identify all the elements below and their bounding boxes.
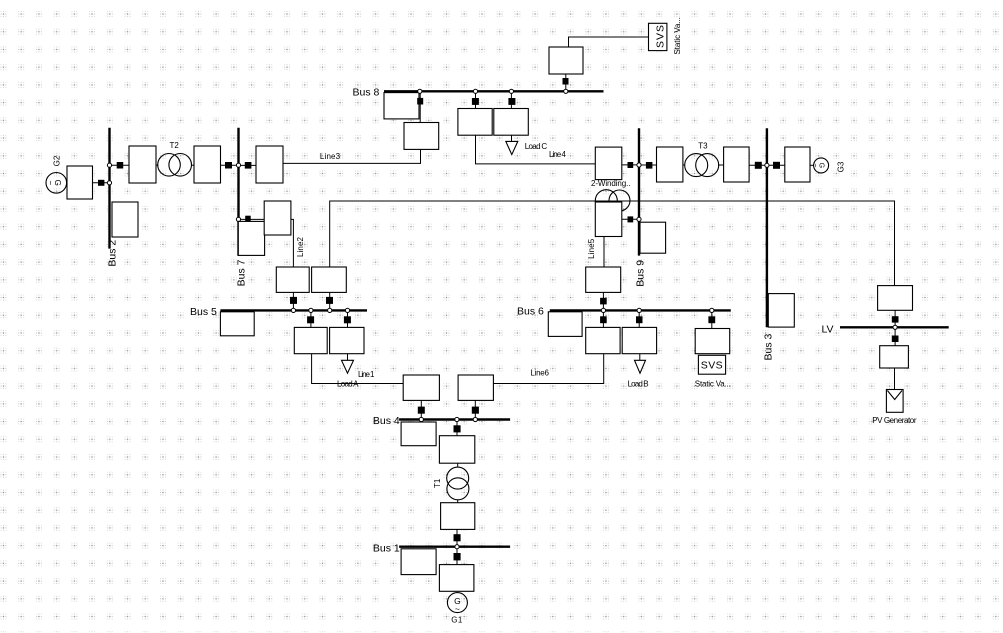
- junction square Bus6-Line6: [600, 316, 607, 323]
- result box Bus 3: [768, 294, 794, 328]
- load Load B triangle: [635, 360, 646, 373]
- wire PV cubicle to PV generator: [894, 368, 896, 390]
- svg-text:LV: LV: [822, 323, 834, 335]
- wire G3 stub: [810, 164, 814, 166]
- wire Bus5 stub LoadA cubicle: [347, 310, 349, 327]
- svg-text:Static Va...: Static Va...: [695, 379, 731, 388]
- SVS static var system 2 box: [698, 355, 725, 374]
- load Load A triangle: [342, 360, 354, 373]
- svg-text:Line 4: Line 4: [549, 150, 567, 159]
- junction square LVupper: [892, 316, 899, 322]
- junction square Bus6-LoadB: [636, 316, 643, 323]
- wire T1 bottom stub: [457, 500, 459, 503]
- node LV: [893, 325, 897, 329]
- wire Bus6 stub Line5: [602, 292, 604, 310]
- bus Bus 5: [220, 309, 367, 311]
- cubicle box SVS at Bus 8: [549, 47, 583, 74]
- wire long line Bus5 area to LV area: [330, 201, 895, 286]
- svg-text:~: ~: [46, 180, 55, 185]
- wire Bus 7 to Line2 cubicle: [239, 218, 265, 220]
- junction square LVlower: [892, 336, 899, 343]
- node Bus6 SVS: [710, 308, 714, 312]
- wire Load A stub: [347, 354, 349, 361]
- node Bus4 Line6: [473, 417, 477, 421]
- wire Line6: [493, 354, 604, 384]
- cubicle box Line6 at Bus4: [458, 375, 493, 400]
- generator G3: [811, 158, 829, 173]
- wire Bus5 stub Line2: [292, 292, 294, 310]
- cubicle box G1: [439, 565, 474, 592]
- cubicle box 2W lower: [595, 202, 622, 237]
- junction square T1-Bus1: [454, 534, 461, 541]
- node Bus1: [455, 545, 459, 549]
- wire T2 left stub: [156, 164, 159, 166]
- cubicle box LoadC at Bus8: [494, 109, 529, 136]
- svg-text:T2: T2: [170, 141, 180, 150]
- node Bus4 T1: [455, 417, 459, 421]
- cubicle box G2: [67, 166, 93, 199]
- node Bus3: [765, 163, 769, 167]
- wire LV upper cubicle to LV bus: [894, 310, 896, 327]
- wire Load B stub: [639, 354, 641, 361]
- wire Bus6 stub LoadB cubicle: [638, 310, 640, 327]
- junction square Bus7-Line3: [245, 162, 252, 169]
- wire T2 cubicle to Bus 7: [220, 164, 239, 166]
- junction square Line2-Bus5: [290, 297, 297, 304]
- bus Bus 6: [550, 309, 731, 311]
- junction square longline-Bus5: [326, 297, 333, 304]
- node Bus5 Line1: [309, 308, 313, 312]
- bus Bus 7: [237, 128, 239, 256]
- svg-text:T3: T3: [698, 142, 708, 151]
- junction square Bus9-T3: [646, 162, 653, 169]
- node Bus6 LoadB: [637, 308, 641, 312]
- junction square Line5-Bus6: [600, 298, 607, 305]
- node Bus7 at Line2 feeder: [236, 217, 240, 221]
- svg-text:Bus 2: Bus 2: [106, 240, 118, 267]
- node Bus8 at SVS: [564, 89, 568, 93]
- svg-text:Line3: Line3: [320, 152, 341, 161]
- wire G2 to Bus 2: [92, 182, 110, 184]
- result box Bus 6: [548, 312, 582, 337]
- cubicle box T2 right: [194, 146, 221, 183]
- cubicle box Line1 at Bus4: [403, 375, 439, 400]
- svg-text:~: ~: [811, 163, 818, 167]
- wire LV bus to PV cubicle: [894, 327, 896, 346]
- junction square T3-Bus3: [755, 162, 762, 169]
- cubicle box LoadB at Bus6: [622, 327, 656, 353]
- generator G2: [46, 173, 67, 194]
- svg-text:SVS: SVS: [655, 25, 667, 48]
- wire Bus 7 to Line3 cubicle: [239, 164, 257, 166]
- cubicle box T1 upper: [439, 436, 474, 464]
- junction square 2Wlower-Bus9: [628, 216, 634, 222]
- wire SVS feeder to Bus 8: [569, 37, 649, 47]
- junction square Bus3-G3: [773, 162, 780, 169]
- svg-text:Line 1: Line 1: [358, 370, 375, 379]
- svg-text:Bus 8: Bus 8: [353, 86, 380, 98]
- cubicle box T2 left: [129, 146, 156, 183]
- bus Bus 2: [108, 128, 110, 249]
- cubicle box longline at Bus5: [312, 267, 347, 292]
- node Bus2 at T2 feeder: [107, 163, 111, 167]
- cubicle box SVS at Bus6: [695, 329, 730, 354]
- wire Line6 cubicle to Bus 4: [474, 400, 476, 419]
- result box Bus 7: [238, 221, 264, 255]
- wire T3 right stub: [718, 164, 723, 166]
- svg-text:Bus 3: Bus 3: [763, 333, 775, 360]
- node Bus9 lower: [637, 217, 641, 221]
- wire Bus8 stub Load C cubicle: [475, 91, 477, 109]
- node Bus5 Line2: [291, 308, 295, 312]
- svg-text:PV Generator: PV Generator: [872, 416, 917, 425]
- wire Bus 9 to T3 cubicle: [639, 164, 657, 166]
- node Bus7 at T2 feeder: [236, 163, 240, 167]
- cubicle box T1 lower: [441, 503, 475, 530]
- junction square Bus6-SVS: [708, 316, 715, 323]
- junction square G2-Bus2: [98, 180, 104, 186]
- cubicle box Line1 at Bus5: [294, 327, 327, 353]
- cubicle box Line6 at Bus6: [586, 327, 620, 353]
- transformer T3: [685, 154, 719, 177]
- transformer 2-Winding: [595, 190, 630, 212]
- cubicle box G3: [785, 147, 810, 182]
- cubicle box PV: [880, 346, 909, 368]
- cubicle box LV upper: [878, 286, 913, 311]
- svg-text:Static Va...: Static Va...: [673, 17, 682, 55]
- cubicle box T3 left: [657, 147, 683, 182]
- result box Bus 9: [640, 222, 666, 253]
- wire Bus6 stub SVS cubicle: [711, 310, 713, 328]
- junction square Bus5-LoadA: [344, 316, 351, 323]
- svg-text:G1: G1: [451, 616, 463, 625]
- generator G1: [447, 593, 467, 614]
- svg-text:Bus 1: Bus 1: [373, 543, 400, 555]
- result box Bus 1: [401, 549, 436, 575]
- bus Bus 3: [766, 128, 768, 327]
- wire Load C stub: [511, 135, 513, 141]
- cubicle box Line3 at Bus8: [404, 123, 439, 150]
- junction square Bus8-Line4: [472, 98, 479, 105]
- wire Line2: [291, 219, 294, 267]
- wire Bus 2 to T2 cubicle: [110, 164, 130, 166]
- junction square Bus8 box1: [417, 98, 423, 105]
- svg-text:Bus 7: Bus 7: [235, 259, 247, 286]
- node Bus5 LoadA: [345, 308, 349, 312]
- wire Line1: [312, 354, 403, 384]
- node Bus4 Line1: [419, 417, 423, 421]
- cubicle box T3 right: [724, 147, 750, 182]
- junction square SVS-Bus8: [563, 78, 569, 85]
- wire T1 top stub: [457, 463, 459, 467]
- svg-text:SVS: SVS: [701, 360, 723, 372]
- bus Bus 8: [384, 90, 604, 92]
- bus LV: [840, 326, 949, 328]
- wire Line3: [283, 149, 421, 163]
- result box Bus 2: [112, 202, 138, 237]
- svg-text:Load C: Load C: [525, 142, 548, 151]
- wire Bus5 stub long line: [329, 292, 331, 310]
- junction square Bus8-LoadC: [508, 98, 515, 105]
- cubicle box Line2 at Bus5: [276, 267, 309, 292]
- node Bus2 at G2 feeder: [107, 181, 111, 185]
- svg-text:2-Winding..: 2-Winding..: [591, 179, 631, 188]
- cubicle box LoadA at Bus5: [330, 327, 364, 353]
- junction square 2Wupper-Bus9: [628, 162, 634, 168]
- svg-text:Load A: Load A: [337, 380, 359, 389]
- wire Bus 1 to G1 cubicle: [456, 547, 458, 565]
- svg-text:Line6: Line6: [530, 369, 549, 378]
- svg-text:T1: T1: [433, 478, 442, 488]
- cubicle box Line4 at Bus8: [458, 109, 492, 136]
- svg-text:~: ~: [455, 604, 460, 614]
- junction square Bus4-T1: [454, 425, 461, 432]
- svg-text:Bus 4: Bus 4: [373, 415, 400, 427]
- transformer T2: [158, 154, 192, 177]
- svg-text:Load B: Load B: [628, 380, 649, 389]
- svg-text:Line2: Line2: [296, 236, 305, 257]
- PV generator symbol: [886, 390, 903, 413]
- wire Bus8 stub box1: [419, 91, 421, 122]
- cubicle box Line5 at Bus6: [586, 267, 621, 292]
- node Bus9 upper: [637, 163, 641, 167]
- wire Bus6 stub Line6 cubicle: [602, 310, 604, 327]
- wire T3 cubicle to Bus 3: [749, 164, 767, 166]
- svg-text:Bus 6: Bus 6: [517, 305, 544, 317]
- wire Bus5 stub Line1 cubicle: [310, 310, 312, 327]
- node Bus5 longline: [328, 308, 332, 312]
- wire Bus8 stub Load C right cubicle: [510, 91, 512, 109]
- node Bus8 at Line4 feeder: [473, 89, 477, 93]
- junction square Bus5-Line1: [307, 316, 314, 323]
- wire 2W lower cubicle to Bus 9: [622, 218, 639, 220]
- svg-text:G2: G2: [53, 155, 62, 166]
- load Load C triangle: [506, 141, 518, 154]
- wire Line4: [476, 135, 596, 164]
- result box Bus 4: [401, 422, 436, 446]
- result box Bus 5: [220, 312, 254, 336]
- node Bus8 at LoadC feeder: [509, 89, 513, 93]
- junction square Line1-Bus4: [418, 407, 425, 414]
- wire Line5: [603, 236, 605, 267]
- svg-text:Line5: Line5: [587, 238, 596, 259]
- bus Bus 4: [399, 418, 510, 420]
- svg-text:Bus 5: Bus 5: [190, 306, 217, 318]
- junction square Bus1-G1: [454, 553, 461, 560]
- wire SVS cubicle to Bus 8: [565, 74, 567, 91]
- cubicle box Line3 at Bus7: [256, 146, 283, 183]
- wire T2 right stub: [191, 164, 194, 166]
- node Bus6 Line5: [601, 308, 605, 312]
- wire T1 lower cubicle to Bus 1: [456, 529, 458, 546]
- wire Bus 3 to G3 cubicle: [767, 164, 785, 166]
- result box Bus 8: [384, 93, 419, 119]
- wire T3 left stub: [683, 164, 685, 166]
- bus Bus 1: [399, 546, 510, 548]
- wire 2W upper cubicle to Bus 9: [622, 164, 639, 166]
- wire Line1 cubicle to Bus 4: [420, 400, 422, 419]
- transformer T1: [447, 467, 469, 500]
- node Bus8 at Line3 feeder: [418, 89, 422, 93]
- svg-text:G3: G3: [837, 161, 846, 172]
- SVS static var system 1 box: [649, 23, 667, 50]
- wire Bus 4 to T1 cubicle: [456, 420, 458, 437]
- junction square Line6-Bus4: [472, 407, 479, 414]
- junction square Bus7-Line2: [245, 216, 251, 222]
- svg-text:Bus 9: Bus 9: [634, 260, 646, 287]
- cubicle box Line2 at Bus7: [264, 201, 291, 235]
- cubicle box 2W upper: [595, 147, 622, 180]
- junction square Bus2-T2: [117, 162, 124, 169]
- bus Bus 9: [638, 128, 640, 255]
- junction square T2-Bus7: [225, 162, 232, 169]
